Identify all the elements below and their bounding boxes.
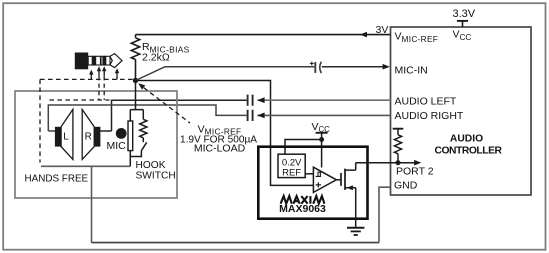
audio controller box U2	[391, 27, 532, 195]
arrow plug ring1 contact	[102, 66, 106, 76]
wire ground vertical to bottom rail	[91, 166, 93, 242]
speaker R	[82, 109, 100, 159]
svg-text:AUDIO LEFT: AUDIO LEFT	[395, 96, 457, 108]
ground	[347, 228, 364, 235]
wire drain to PORT 2	[356, 162, 398, 164]
IC U1 MAX9063 box	[258, 147, 367, 219]
wire dashed sleeve lead	[40, 78, 134, 80]
node PORT 2 junction	[396, 160, 401, 165]
svg-text:2.2kΩ: 2.2kΩ	[142, 51, 170, 63]
connector J1 TRRS plug body	[75, 53, 122, 70]
arrow plug tip contact	[115, 68, 119, 79]
capacitor C2 (AUDIO LEFT coupling)	[248, 95, 253, 106]
arrow annotation to junction	[138, 83, 190, 123]
label R_MIC-BIAS value	[142, 41, 190, 63]
svg-text:3V: 3V	[376, 24, 389, 36]
arrow plug sleeve contact	[89, 70, 93, 80]
svg-text:AUDIO: AUDIO	[450, 134, 483, 145]
wire dashed speaker leads horizontal	[49, 99, 109, 101]
switch HOOK SWITCH	[130, 142, 175, 181]
svg-text:3.3V: 3.3V	[453, 8, 476, 20]
capacitor C1 (polarized, MIC-IN)	[310, 62, 322, 74]
svg-text:L: L	[63, 131, 69, 142]
wire AUDIO LEFT (speaker R to cap)	[100, 100, 246, 131]
hands free enclosure box	[15, 91, 177, 198]
arrow plug ring2 contact	[97, 66, 101, 76]
svg-text:SWITCH: SWITCH	[136, 170, 176, 181]
resistor hook-switch branch	[142, 110, 144, 120]
node VCC junction	[319, 137, 324, 142]
power V_CC feed	[312, 121, 331, 139]
logo MAXIM	[281, 196, 325, 204]
wire bottom ground rail	[92, 242, 380, 244]
svg-text:GND: GND	[394, 180, 418, 192]
wire VCC to 0.2V REF	[285, 140, 322, 155]
svg-text:REF: REF	[282, 167, 301, 178]
wire V_MIC-REF sense to comparator + input	[136, 81, 314, 186]
op-amp comparator U1A	[305, 167, 336, 192]
svg-text:PORT 2: PORT 2	[396, 166, 434, 178]
svg-text:MIC-IN: MIC-IN	[395, 64, 428, 76]
wire VCC to comparator	[321, 140, 323, 168]
wire dashed ring1 drop	[103, 76, 105, 100]
wire rail up to GND pin	[379, 187, 391, 242]
svg-text:AUDIO RIGHT: AUDIO RIGHT	[395, 110, 464, 122]
reference 0.2V REF block	[278, 154, 305, 178]
wire AUDIO RIGHT (speaker L to cap)	[48, 105, 246, 131]
label AUDIO CONTROLLER	[434, 134, 502, 157]
microphone MIC	[107, 81, 144, 167]
wire MIC-IN into controller	[322, 66, 388, 68]
resistor R_MIC-BIAS	[135, 35, 137, 38]
node V_MIC-REF junction	[133, 78, 138, 83]
wire AUDIO RIGHT from controller	[257, 114, 390, 116]
transistor Q1 MOSFET	[336, 163, 355, 228]
svg-text:MAX9063: MAX9063	[279, 203, 326, 215]
wire AUDIO LEFT from controller	[257, 99, 390, 101]
svg-text:HOOK: HOOK	[136, 160, 166, 171]
svg-text:MIC-LOAD: MIC-LOAD	[194, 143, 246, 155]
svg-text:R: R	[85, 131, 92, 142]
wire dashed sleeve drop	[39, 79, 41, 162]
svg-text:HANDS FREE: HANDS FREE	[25, 174, 89, 185]
arrow PORT 2 signal	[398, 160, 421, 166]
speaker L	[55, 109, 73, 159]
label V_MIC-REF annotation	[180, 123, 257, 154]
capacitor C3 (AUDIO RIGHT coupling)	[248, 110, 253, 121]
wire dashed ring2 drop	[98, 76, 100, 100]
resistor pull-up PORT 2	[393, 129, 404, 163]
wire V_MIC-REF to resistor top	[136, 34, 391, 36]
arrow AUDIO RIGHT direction	[257, 113, 264, 119]
arrow MIC-IN into pin	[383, 64, 390, 70]
svg-text:MIC: MIC	[107, 140, 127, 152]
svg-text:CONTROLLER: CONTROLLER	[434, 145, 502, 156]
wire MIC-IN from junction	[136, 67, 315, 81]
arrow 3V current direction	[360, 32, 367, 38]
arrow AUDIO LEFT direction	[257, 97, 264, 103]
wire ground return of hands-free	[41, 165, 130, 167]
power 3.3V supply	[453, 8, 476, 27]
